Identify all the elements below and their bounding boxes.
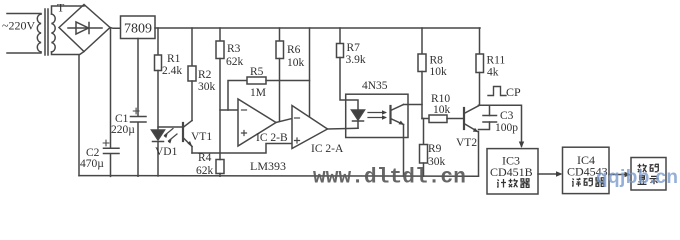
resistor R4 <box>216 153 224 176</box>
label 计数器 <box>497 179 530 188</box>
svg-text:30k: 30k <box>198 81 216 93</box>
wire IC2-B output to IC2-A inverting input <box>276 119 292 123</box>
4N35 internal LED <box>352 110 365 128</box>
op-amp IC2-A <box>292 106 328 149</box>
svg-text:4N35: 4N35 <box>362 80 388 92</box>
svg-text:62k: 62k <box>196 165 214 177</box>
svg-text:www.dltdl.cn: www.dltdl.cn <box>313 167 466 190</box>
wire secondary top to bridge top corner <box>52 6 85 14</box>
resistor R9 <box>420 119 428 177</box>
resistor R5 feedback <box>228 28 310 117</box>
svg-text:62k: 62k <box>226 56 244 68</box>
transformer core <box>45 9 48 55</box>
svg-text:T: T <box>57 1 65 15</box>
display box <box>631 158 666 191</box>
wire secondary bottom <box>52 52 80 55</box>
svg-text:470µ: 470µ <box>80 158 104 170</box>
wire emitter node to R4 and IC2-A plus step <box>192 144 292 154</box>
transistor VT1 <box>183 121 193 154</box>
svg-text:VT2: VT2 <box>456 137 477 149</box>
capacitor C1 <box>131 117 147 177</box>
svg-text:1M: 1M <box>250 87 266 99</box>
photodiode VD1 <box>152 130 165 176</box>
svg-text:IC 2-B: IC 2-B <box>256 132 288 144</box>
label 译码器 <box>572 178 605 187</box>
svg-text:LM393: LM393 <box>250 159 286 173</box>
op-amp IC2-B <box>238 99 276 146</box>
svg-text:10k: 10k <box>430 66 448 78</box>
bridge internal diode <box>68 23 102 34</box>
resistor R10 <box>422 115 464 123</box>
svg-text:220µ: 220µ <box>111 124 135 136</box>
svg-text:10k: 10k <box>433 104 451 116</box>
decoder IC4 box <box>563 147 610 193</box>
svg-text:R11: R11 <box>487 55 506 67</box>
svg-text:R7: R7 <box>347 42 361 54</box>
wire C2 column from bridge output <box>110 28 112 148</box>
svg-text:CD451B: CD451B <box>490 165 533 179</box>
bridge rectifier diamond <box>59 5 110 52</box>
svg-text:R6: R6 <box>287 44 301 56</box>
wire VD1 node to VT1 base <box>158 126 183 128</box>
ground rail <box>79 175 479 178</box>
svg-text:R2: R2 <box>198 69 212 81</box>
svg-text:3.9k: 3.9k <box>346 54 366 66</box>
resistor R3 <box>216 28 224 153</box>
resistor R8 <box>418 28 426 119</box>
svg-text:VT1: VT1 <box>191 131 212 143</box>
svg-text:CP: CP <box>506 85 521 99</box>
transformer T primary winding <box>37 14 41 52</box>
transformer T secondary winding <box>52 14 56 52</box>
regulator 7809 box <box>121 16 156 39</box>
optocoupler 4N35 box <box>346 94 408 137</box>
label 数码 <box>638 164 659 172</box>
wire phototransistor emitter to ground rail <box>403 125 405 177</box>
svg-text:R9: R9 <box>428 143 442 155</box>
svg-text:R8: R8 <box>430 55 444 67</box>
CP node wire to counter <box>479 105 522 146</box>
svg-text:qqjbb.cn: qqjbb.cn <box>596 167 678 188</box>
svg-text:R3: R3 <box>227 43 241 55</box>
wire IC2-A output to optocoupler LED <box>328 127 359 130</box>
capacitor C2 <box>104 148 120 176</box>
CP pulse symbol <box>488 87 506 96</box>
arrow IC3 to IC4 <box>538 173 560 175</box>
svg-text:C3: C3 <box>500 110 514 122</box>
counter IC3 box <box>487 149 538 194</box>
svg-text:2.4k: 2.4k <box>162 65 182 77</box>
resistor R7 <box>337 28 359 110</box>
svg-text:7809: 7809 <box>124 22 152 37</box>
top supply rail <box>155 27 480 29</box>
capacitor C3 <box>479 105 497 129</box>
wire bridge negative output down to ground rail <box>79 52 84 176</box>
C1 plus sign <box>133 108 139 114</box>
wire primary bottom terminal <box>7 52 41 53</box>
wire IC2-B inverting input <box>220 109 238 111</box>
4N35 phototransistor <box>391 105 405 125</box>
resistor R11 <box>476 28 484 105</box>
svg-text:4k: 4k <box>487 67 499 79</box>
resistor R2 <box>188 28 196 121</box>
wire bridge positive output to 7809 input <box>110 27 121 30</box>
arrow IC4 to display <box>609 174 629 176</box>
svg-text:~220V: ~220V <box>2 19 35 33</box>
svg-text:VD1: VD1 <box>155 146 178 158</box>
transistor VT2 <box>464 106 479 176</box>
svg-text:100p: 100p <box>495 122 518 134</box>
resistor R1 <box>155 28 162 130</box>
svg-text:R5: R5 <box>250 66 264 78</box>
svg-text:R4: R4 <box>198 152 212 164</box>
label 显示 <box>638 176 659 185</box>
wire phototransistor collector to R8 column <box>404 104 423 106</box>
svg-text:10k: 10k <box>287 57 305 69</box>
VD1 light arrows <box>164 129 177 144</box>
wire 7809 ground pin down through C1 <box>137 39 139 117</box>
arrow head into IC3 <box>519 142 524 149</box>
resistor R6 <box>276 28 284 121</box>
wire primary top terminal <box>7 13 41 16</box>
svg-text:R1: R1 <box>167 53 181 65</box>
4N35 light arrows <box>368 110 387 120</box>
svg-text:IC 2-A: IC 2-A <box>311 143 344 155</box>
C2 plus sign <box>103 140 109 146</box>
